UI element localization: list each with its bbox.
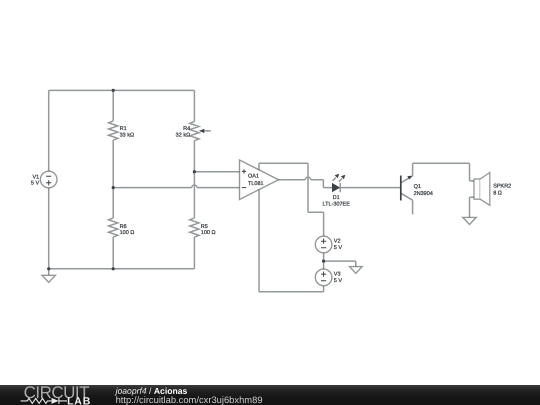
svg-text:LAB: LAB: [67, 396, 91, 405]
svg-text:TL081: TL081: [248, 181, 264, 187]
svg-text:100 Ω: 100 Ω: [120, 230, 135, 236]
svg-text:R5: R5: [201, 224, 208, 230]
svg-text:OA1: OA1: [248, 173, 259, 179]
svg-text:LTL-307EE: LTL-307EE: [322, 201, 350, 207]
svg-text:http://circuitlab.com/cxr3uj6b: http://circuitlab.com/cxr3uj6bxhm89: [116, 394, 263, 405]
svg-text:5 V: 5 V: [334, 245, 343, 251]
svg-text:5 V: 5 V: [31, 181, 40, 187]
svg-text:D1: D1: [333, 195, 340, 201]
svg-text:R6: R6: [120, 224, 127, 230]
svg-text:5 V: 5 V: [334, 278, 343, 284]
svg-text:R4: R4: [183, 126, 190, 132]
svg-text:32 kΩ: 32 kΩ: [176, 133, 191, 139]
svg-text:100 Ω: 100 Ω: [201, 230, 216, 236]
svg-text:33 kΩ: 33 kΩ: [120, 133, 135, 139]
svg-text:V1: V1: [32, 174, 39, 180]
svg-text:V3: V3: [334, 272, 341, 278]
svg-text:R1: R1: [120, 126, 127, 132]
svg-text:8 Ω: 8 Ω: [493, 190, 502, 196]
svg-text:V2: V2: [334, 239, 341, 245]
svg-text:Q1: Q1: [414, 184, 421, 190]
svg-text:2N3904: 2N3904: [414, 191, 433, 197]
svg-text:SPKR2: SPKR2: [493, 184, 511, 190]
